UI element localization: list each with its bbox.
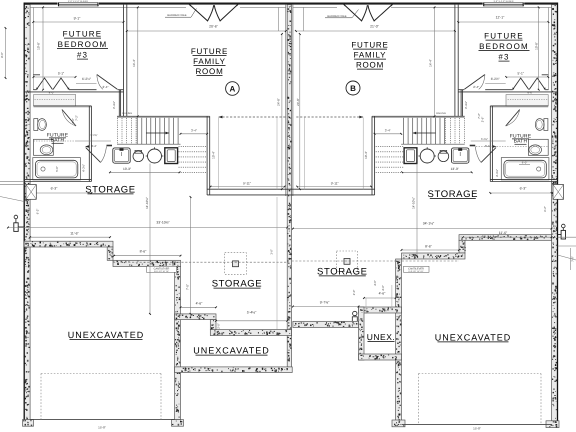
dim line: overall width unit B 34'-1 1/2 [293,228,552,230]
stair: direction arrow (unit A) [146,132,169,134]
door: hall A to storage door with swing [86,148,101,163]
svg-text:13'-3": 13'-3" [451,167,459,171]
stair: upper flight treads (unit A) [117,115,210,117]
wall: storage B south wall band [359,307,402,313]
svg-text:1'-9": 1'-9" [463,246,467,252]
wall: center strip north wall (unit A west part) [175,314,216,320]
wall: left unexcavated north wall (west segment) [24,241,113,247]
svg-text:5'-1": 5'-1" [58,72,64,76]
svg-text:6'-0": 6'-0" [522,161,528,165]
symbol: sump pump (unit B) [353,311,357,315]
svg-text:FUTURE: FUTURE [191,47,228,56]
note: cantilever label (unit B) [404,266,430,272]
svg-text:4'-0": 4'-0" [373,280,377,286]
fixture: water softener (unit B) [438,151,449,162]
stair: lower flight treads (unit B) [375,146,404,148]
svg-text:10'-8": 10'-8" [535,42,539,50]
svg-text:1'-9": 1'-9" [108,250,112,256]
svg-text:4'-6": 4'-6" [196,301,204,305]
beam: dashed beam line (unit B) [296,116,363,118]
wall: center strip south wall (unit A) [175,367,293,373]
svg-text:12'-1": 12'-1" [496,16,505,20]
footing: right unexcavated west wall foot [392,420,405,427]
footing: left wall bottom foot [23,420,34,427]
beam: dashed beam line lower (unit A) [113,261,287,263]
dim line: utility row (unit B) [402,171,472,173]
wall: bedroom A west face line [32,7,34,90]
line: interior face of top wall [30,6,186,8]
svg-text:RAILING: RAILING [436,112,446,115]
svg-text:6'-3": 6'-3" [520,186,528,190]
svg-text:9'-1": 9'-1" [74,16,82,20]
svg-text:FLR JST 16" OC: FLR JST 16" OC [154,270,169,273]
dim: vanity dotted lines and notes [34,140,77,142]
dim line: family room A height [137,7,139,116]
svg-text:14'-4": 14'-4" [429,59,433,67]
wall: right unexcavated north wall (west segment) [402,253,466,259]
beam: dashed beam line lower (unit B) [292,260,459,262]
column pad: unit A (dashed with pier) [225,253,247,275]
svg-text:3'-4½": 3'-4½" [112,101,116,109]
svg-text:10'-8": 10'-8" [37,42,41,50]
svg-text:4'-0": 4'-0" [49,91,55,95]
wall: left exterior foundation wall [24,5,30,420]
dim line: bedroom A width [33,21,123,23]
unit symbol: circle A [226,82,240,96]
svg-text:BARRIER FREE: BARRIER FREE [167,14,186,17]
dim line: family room B height [434,7,436,116]
dim line: bedroom A height [42,7,44,89]
svg-text:3'-4": 3'-4" [485,144,491,148]
svg-text:34'-1½": 34'-1½" [423,222,435,226]
svg-text:6'-2": 6'-2" [36,209,40,215]
window: egress window well left wall (unit A) [26,185,36,200]
symbol: gas meter at left wall [14,215,18,219]
dim line: 11'-6 right [463,236,552,238]
svg-text:5'-0": 5'-0" [55,166,59,172]
wall: hall B west stair wall [461,90,463,116]
door: hall B to storage door with swing [481,148,496,163]
dim line: party wall side (unit A) [277,7,279,31]
dim line: stair width (unit B) [375,133,402,135]
line: stoop edge outside left wall [0,181,24,183]
svg-text:9'-7⅜": 9'-7⅜" [320,300,330,304]
beam: dashed beam line (unit A) [219,116,286,118]
wall: step at right unexcavated [459,240,465,253]
slab: dashed slab outline (left unexcavated) [40,374,42,420]
svg-text:UNEXCAVATED: UNEXCAVATED [193,346,270,356]
svg-text:3'-6": 3'-6" [481,117,485,123]
svg-text:1'-6": 1'-6" [270,249,274,255]
dim line: 4'-6 unit A step [181,306,217,308]
svg-text:BATH: BATH [51,138,65,144]
dim line: far-left edge vertical [5,28,7,78]
stair: direction arrow (unit B) [413,132,436,134]
door: bedroom A closet bifold doors [37,78,53,90]
svg-text:9'-11": 9'-11" [331,181,339,185]
svg-text:2'-4": 2'-4" [103,85,109,89]
fixture: water heater (unit B) [420,149,434,163]
dim line: closet B width [506,76,548,78]
dim line: 8'-6 left [114,255,181,257]
svg-text:5'-1": 5'-1" [518,72,524,76]
wall: bath B south wall [490,179,557,181]
door: bedroom A entry door with swing [97,75,118,90]
svg-text:BEDROOM: BEDROOM [58,40,108,49]
fixture: laundry sink (unit B) [452,148,469,163]
dim line: overall width unit A 33'-10 1/2 [8,227,287,229]
svg-text:B: B [350,84,356,93]
door: bedroom B closet bifold doors [529,78,545,90]
wall: center strip step (unit A) [210,320,216,330]
svg-text:20'-6": 20'-6" [209,24,218,28]
dim line: bedroom B width [458,21,548,23]
dim line: far-right edge vertical [570,248,572,270]
dim line: bath B width [490,192,551,194]
svg-text:13'-3": 13'-3" [123,167,131,171]
wall: bedroom B south wall [545,89,548,91]
svg-text:UNEXCAVATED: UNEXCAVATED [435,332,512,342]
svg-text:5'-2⅜": 5'-2⅜" [90,134,97,137]
svg-text:14'-10½": 14'-10½" [145,197,149,209]
wall: party wall (stippled, center) [287,5,291,372]
wall: bedroom B west face line [547,7,549,90]
svg-text:7'-0": 7'-0" [571,256,575,262]
wall: left unexcavated north wall (east segment) [113,260,181,266]
svg-text:21'-0": 21'-0" [370,24,379,28]
svg-text:#3: #3 [498,53,509,62]
svg-text:ROOM: ROOM [356,61,384,70]
wall: hall A west stair wall [118,90,120,116]
wall: bath B east wall [491,106,493,182]
wall: storage A south wall band [210,330,291,336]
wall: unex B south wall band [359,354,402,360]
svg-text:4'-6": 4'-6" [381,285,385,291]
svg-text:5'-4½": 5'-4½" [247,311,257,315]
symbol: gas meter at right wall [562,224,566,228]
svg-text:15'-8": 15'-8" [98,426,106,430]
svg-text:6'-2½": 6'-2½" [82,77,91,81]
svg-text:11'-6": 11'-6" [70,231,79,235]
svg-text:7'-0": 7'-0" [185,284,189,290]
svg-text:FUTURE: FUTURE [351,41,388,50]
unit symbol: circle B [346,81,360,95]
fixture: laundry sink (unit A) [113,148,130,163]
svg-text:4'-3½": 4'-3½" [81,164,85,172]
window: egress window well right wall (unit B) [553,185,564,200]
svg-text:6'-2": 6'-2" [543,206,547,212]
dim line: storage B width [297,186,371,188]
fixture: bathtub (bath A) [33,158,81,180]
svg-text:2'-0": 2'-0" [216,323,220,329]
wall: step down at left unexcavated [107,247,113,260]
column pad: unit B (dashed with pier) [337,251,358,272]
svg-text:6'-2½": 6'-2½" [491,77,500,81]
wall: bedroom B / family room B partition [457,5,459,117]
line: storage A finish lines [218,118,220,190]
wall: right unexcavated north wall (east segment) [459,235,552,241]
dim line: family room A width [127,30,286,32]
svg-text:ROOM: ROOM [195,67,223,76]
door: bath B door with swing [506,110,520,127]
wall: storage B south wall [290,188,374,190]
wall: bath A south wall [24,179,91,181]
svg-text:4'-3½": 4'-3½" [495,169,499,177]
svg-text:A: A [230,85,236,94]
footing: left unexcavated east wall foot [172,420,184,427]
door: bedroom B entry door with swing [464,75,485,90]
closet: bedroom A closet with rod (dashed) [34,95,76,106]
dim line: 8'-6 right [402,249,460,251]
svg-text:6'-3": 6'-3" [51,186,59,190]
svg-text:CANTILEVER: CANTILEVER [154,267,170,270]
wall: unex B north-west wall band [293,321,359,327]
dim: vertical 1'-6 unit A near party wall [276,197,278,330]
slab: dashed slab outline (right unexcavated) [418,374,420,425]
svg-text:3'-6": 3'-6" [71,118,75,124]
wall: bath A east wall [88,106,90,182]
wall: top exterior foundation wall [24,3,558,5]
svg-text:FLR JST 16" OC: FLR JST 16" OC [409,270,424,273]
svg-text:14'-10½": 14'-10½" [412,197,416,209]
line: stoop edge outside right wall [558,236,576,238]
svg-text:3'-0" X 4'-0" SLIDER: 3'-0" X 4'-0" SLIDER [494,0,514,3]
svg-text:4'-6": 4'-6" [379,291,387,295]
svg-text:4'-0": 4'-0" [527,91,533,95]
svg-text:9'-11": 9'-11" [243,181,251,185]
fixture: vanity with sink (bath B) [528,139,548,155]
dim line: storage A width [211,186,285,188]
svg-text:14'-4": 14'-4" [132,59,136,67]
svg-text:11'-6": 11'-6" [499,231,508,235]
fixture: toilet (bath B) [544,119,548,131]
line: right unexcavated south edge [402,423,552,425]
svg-text:10'-4": 10'-4" [364,151,368,159]
wall: storage A south wall [207,188,291,190]
door: bath A door with swing [62,110,76,127]
svg-text:3'-4": 3'-4" [191,129,197,133]
window: family room B barrier-free casement pair [368,5,392,21]
fixture: furnace (unit A) [165,148,178,164]
dim line: vanity A [76,140,111,142]
fixture: bathtub (bath B) [501,158,549,180]
window: family room A barrier-free casement pair [190,5,214,21]
dim line: bedroom B height [538,7,540,89]
wall: storage B west wall [374,116,376,195]
dim line: 5'-4 1/2 unit A [216,320,287,322]
svg-text:3'-4": 3'-4" [91,144,97,148]
dim line: 4'-6 unit B [364,297,396,299]
svg-text:24'-8": 24'-8" [276,98,280,106]
wall: bedroom A south wall [33,89,36,91]
dim line: 11'-6 left [30,236,110,238]
fixture: vanity with sink (bath A) [34,139,54,155]
svg-text:#3: #3 [77,51,88,60]
dim line: bath A width [30,192,91,194]
svg-text:FAMILY: FAMILY [193,57,226,66]
svg-text:BEDROOM: BEDROOM [479,42,529,51]
stair: upper flight treads (unit B) [372,115,465,117]
svg-text:CANTILEVER: CANTILEVER [408,267,424,270]
fixture: furnace (unit B) [404,148,417,164]
wall: bedroom A / family room A partition [123,5,125,117]
dim line: party wall side (unit B) [302,7,304,31]
wall: right exterior foundation wall [552,5,558,421]
svg-text:2'-4": 2'-4" [473,85,479,89]
fixture: water softener (unit A) [133,151,144,162]
svg-text:3'-4": 3'-4" [385,129,391,133]
svg-text:8'-0": 8'-0" [0,52,4,58]
svg-text:8'-6": 8'-6" [425,245,433,249]
svg-text:UNEXCAVATED: UNEXCAVATED [68,330,145,340]
dim: vertical 14'-10 1/2 unit B [416,164,418,257]
dim: vertical 14'-10 1/2 unit A [149,164,151,314]
fixture: water heater (unit A) [148,149,162,163]
dim line: vanity B [471,140,506,142]
dim: vertical 7'-0 unit A [190,197,192,314]
dim line: 9'-7 7/8 unit B [293,306,359,308]
svg-text:3'-4½": 3'-4½" [464,101,468,109]
stair: lower flight treads (unit A) [179,146,208,148]
window: bedroom A egress window (top wall) [58,2,100,7]
svg-text:24'-8": 24'-8" [296,98,300,106]
svg-text:UNEX.: UNEX. [367,332,395,342]
wall: unex B west wall band [359,307,365,360]
svg-text:3'-0" X 4'-0" SLIDER: 3'-0" X 4'-0" SLIDER [68,0,88,3]
footing: right wall bottom foot [546,421,559,428]
window: bedroom B egress window (top wall) [483,2,525,7]
dim line: utility row (unit A) [110,171,180,173]
dim line: closet A width [34,76,76,78]
svg-text:15'-8": 15'-8" [473,427,481,431]
svg-text:8'-6": 8'-6" [140,249,148,253]
wall: right unexcavated west wall [396,259,402,421]
wall: storage A west wall [206,116,208,195]
svg-text:FUTURE: FUTURE [484,32,524,41]
svg-text:FUTURE: FUTURE [63,30,103,39]
wall: left unexcavated east wall [175,267,181,420]
svg-text:BATH: BATH [514,139,528,145]
svg-text:2'-0": 2'-0" [352,290,356,296]
line: left unexcavated south edge [30,418,175,420]
dim line: stair width (unit A) [181,133,208,135]
svg-text:FAMILY: FAMILY [354,51,387,60]
note: cantilever label (unit A) [147,266,177,272]
closet: bedroom B closet with rod (dashed) [506,95,548,106]
dim line: family room B width [296,30,455,32]
svg-text:10'-4": 10'-4" [212,151,216,159]
fixture: toilet (bath A) [34,119,38,131]
svg-text:RAILING: RAILING [122,112,132,115]
svg-text:33'-10½": 33'-10½" [156,220,170,224]
line: storage B finish lines [362,118,364,190]
svg-text:7'-2": 7'-2" [75,115,79,121]
svg-text:BARRIER FREE: BARRIER FREE [327,15,346,18]
svg-text:5'-2⅜": 5'-2⅜" [481,138,488,141]
